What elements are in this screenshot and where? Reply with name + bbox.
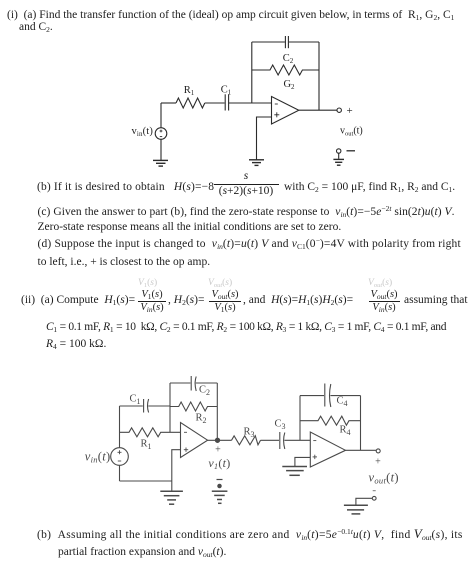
svg-text:vout(t): vout(t) xyxy=(369,471,399,486)
resistor R3 xyxy=(232,427,261,445)
svg-text:vin(t): vin(t) xyxy=(85,450,111,465)
wire C3 to op-amp2 inverting input xyxy=(284,439,310,441)
svg-text:vin(t): vin(t) xyxy=(131,126,153,138)
wire feedback right vertical stage1 xyxy=(216,383,218,440)
wire C1 branch right xyxy=(148,405,170,407)
wire output xyxy=(299,109,337,111)
capacitor C3 xyxy=(274,419,285,450)
capacitor C2 xyxy=(283,36,294,65)
svg-text:R1: R1 xyxy=(184,85,195,97)
wire non-inverting input to ground xyxy=(257,117,272,160)
wire R3 to C3 xyxy=(261,439,280,441)
op-amp A1 xyxy=(181,423,208,458)
svg-text:C4: C4 xyxy=(336,396,347,409)
wire op-amp2 output xyxy=(346,449,377,451)
output terminal vout minus xyxy=(356,491,376,505)
label vout(t) stage2 xyxy=(369,471,399,486)
label vin(t) xyxy=(131,126,153,138)
svg-text:R1: R1 xyxy=(140,439,151,452)
wire C1 branch left xyxy=(120,405,143,407)
wire bottom rail from source xyxy=(120,480,172,482)
svg-text:C1: C1 xyxy=(221,85,232,97)
label plus v1 xyxy=(208,445,230,472)
resistor R1 xyxy=(176,85,205,108)
wire C1 to op-amp inverting input xyxy=(229,102,272,104)
wire top branch left xyxy=(252,41,285,43)
fraction V1(s)/Vin(s) xyxy=(137,288,167,301)
svg-text:+: + xyxy=(375,457,381,468)
svg-text:R3: R3 xyxy=(243,427,254,440)
ground under source xyxy=(153,160,168,166)
op-amp U1 xyxy=(272,97,299,125)
op-amp A2 xyxy=(310,432,345,467)
wire C4 top branch left xyxy=(300,395,324,397)
wire input node to R1 xyxy=(161,102,176,104)
svg-text:R2: R2 xyxy=(195,413,206,426)
wire feedback right vertical stage2 xyxy=(360,396,362,451)
wire plus input op-amp2 to ground xyxy=(295,457,310,466)
terminal v1 reference xyxy=(217,480,223,488)
node A feedback tap vertical xyxy=(251,42,253,103)
capacitor C1 xyxy=(221,85,232,111)
svg-text:+: + xyxy=(215,445,221,456)
ground bottom rail xyxy=(160,491,183,504)
label vout(t) xyxy=(340,126,363,138)
svg-text:R4: R4 xyxy=(339,425,350,438)
wire top branch right xyxy=(289,41,319,43)
svg-text:C2: C2 xyxy=(283,53,294,65)
fraction Vout(s)/Vin(s) xyxy=(368,288,400,301)
capacitor C4 xyxy=(325,384,348,409)
wire plus input to bottom rail xyxy=(172,450,181,481)
resistor R4 xyxy=(300,416,361,437)
svg-text:+: + xyxy=(347,105,353,117)
wire R1 to C1 xyxy=(205,102,225,104)
wire C4 top branch right xyxy=(330,395,360,397)
ground v1 reference xyxy=(212,491,228,503)
wire feedback right vertical xyxy=(318,42,320,110)
svg-text:G2: G2 xyxy=(283,79,295,91)
wire C2 top branch left xyxy=(170,382,190,384)
output terminal vout plus xyxy=(375,449,381,468)
wire C2 top branch right xyxy=(196,382,218,384)
wire op-amp1 output xyxy=(208,439,232,441)
svg-text:C1: C1 xyxy=(129,394,140,407)
fraction Vout(s)/V1(s) xyxy=(208,288,242,301)
output terminal plus xyxy=(337,105,353,117)
ground vout minus xyxy=(344,505,368,514)
voltage source Vin stage2 xyxy=(111,406,129,481)
ground under minus terminal xyxy=(333,159,344,165)
output terminal minus xyxy=(337,149,356,159)
voltage source Vin xyxy=(155,103,167,160)
ground under op-amp plus input xyxy=(249,160,264,166)
svg-text:v1(t): v1(t) xyxy=(208,456,230,471)
svg-text:C2: C2 xyxy=(199,385,210,398)
resistor G2 xyxy=(252,65,319,91)
label vin(t) stage2 xyxy=(85,450,111,465)
svg-text:C3: C3 xyxy=(274,419,285,432)
fraction s/((s+2)(s+10)) xyxy=(213,170,279,183)
ground op-amp2 plus xyxy=(282,467,307,476)
node inverting vertical stage2 xyxy=(299,396,301,441)
svg-text:vout(t): vout(t) xyxy=(340,126,363,138)
wire ground stub stage1 xyxy=(171,481,173,491)
capacitor C1 stage2 xyxy=(129,394,148,413)
capacitor C2 stage2 xyxy=(191,376,210,397)
node inverting vertical stage1 xyxy=(169,383,171,432)
resistor R2 xyxy=(170,402,217,425)
node junction v1 xyxy=(215,438,219,442)
resistor R1 stage2 xyxy=(120,428,181,451)
